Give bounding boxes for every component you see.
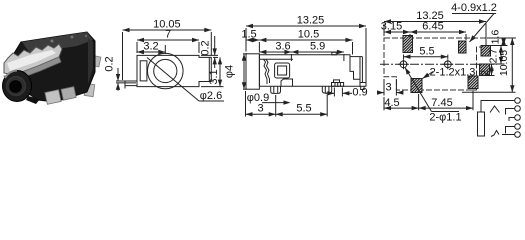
svg-text:5.5: 5.5 <box>419 46 434 58</box>
dim 1.5 view2 <box>246 39 259 41</box>
view1 left inner slot <box>140 61 147 81</box>
svg-text:0.2: 0.2 <box>200 40 212 55</box>
svg-text:3.15: 3.15 <box>381 21 402 33</box>
schematic mid pin wire <box>509 118 515 122</box>
dim 13.25 view3 <box>384 21 486 23</box>
svg-text:13.25: 13.25 <box>297 15 325 27</box>
svg-text:10.05: 10.05 <box>498 50 510 76</box>
view2 window outer <box>275 63 290 78</box>
view2 window inner <box>278 66 287 75</box>
svg-text:3: 3 <box>258 102 264 114</box>
view1 top small bump <box>198 55 200 57</box>
hole2 circle <box>444 61 451 68</box>
dim 10.5 view2 <box>259 39 352 41</box>
schematic tip contact spring <box>490 106 500 113</box>
photo: bottom feet <box>45 90 61 105</box>
dim 5.5 view2 <box>276 113 328 115</box>
view2 body outline <box>259 55 360 87</box>
svg-text:2-1.2x1.3: 2-1.2x1.3 <box>430 67 476 79</box>
view1 inner circle phi2.6 <box>154 59 177 82</box>
svg-text:1.5: 1.5 <box>241 29 256 41</box>
svg-text:3.2: 3.2 <box>143 41 158 53</box>
view1 left tab inner lines <box>124 81 126 89</box>
view2 leg1 <box>271 86 281 93</box>
photo: body top face <box>22 32 93 53</box>
view2 serrated step <box>334 80 340 83</box>
view1 right tab inner line <box>208 57 210 81</box>
view2 barrel rect <box>246 54 259 89</box>
photo: body under-barrel shadow <box>26 96 40 104</box>
dim 3 view3 <box>378 92 385 94</box>
pad2 hatched <box>459 41 467 53</box>
photo: metal bracket band <box>4 44 62 75</box>
dim phi4 view2 <box>243 54 245 89</box>
view1 diagonal leader through circle <box>147 58 199 102</box>
schematic sleeve wire <box>481 101 515 113</box>
dim 3.2 view1 <box>137 51 165 53</box>
svg-text:φ4: φ4 <box>224 65 236 78</box>
photo: barrel ring <box>7 77 26 96</box>
view1 phi2.6 label <box>199 100 224 102</box>
schematic plug rect <box>478 112 485 136</box>
svg-text:0.2: 0.2 <box>104 56 116 71</box>
view2 inner top line <box>259 58 293 60</box>
dim 3.15 view3 <box>384 31 410 33</box>
view2 top bump <box>332 52 337 55</box>
view2 right bracket <box>350 56 362 58</box>
pad6 hatched <box>468 76 478 89</box>
dim 7 view1 <box>137 39 199 41</box>
svg-text:φ2.6: φ2.6 <box>200 90 222 102</box>
dim 5.9 view2 <box>291 51 344 53</box>
pad4 hatched <box>480 64 490 76</box>
svg-text:3.6: 3.6 <box>275 41 290 53</box>
photo: right pin upper <box>90 55 101 67</box>
pad1 hatched <box>403 36 413 53</box>
svg-text:0.9: 0.9 <box>352 87 367 99</box>
dim 3.6 view2 <box>259 51 291 53</box>
svg-text:4-0.9x1.2: 4-0.9x1.2 <box>451 2 497 14</box>
dim 5.5 view3 <box>404 56 448 58</box>
svg-text:2-φ1.1: 2-φ1.1 <box>429 112 461 124</box>
photo: body top highlights <box>51 40 54 43</box>
svg-text:5.5: 5.5 <box>296 102 311 114</box>
schematic lower pin wire <box>506 127 515 134</box>
photo: jack hole <box>10 81 22 93</box>
svg-text:1.6: 1.6 <box>490 30 502 45</box>
svg-text:7.45: 7.45 <box>431 97 452 109</box>
dim 1.6 view3 <box>503 38 505 46</box>
svg-text:5.9: 5.9 <box>310 41 325 53</box>
dim 13.25 view2 <box>246 25 366 27</box>
dim 10.05 view3 <box>511 38 513 92</box>
dim 3 view2 <box>246 113 276 115</box>
view2 leg2 <box>322 86 331 93</box>
photo: barrel outer <box>3 71 32 102</box>
dim 3.1 right view1 <box>219 57 221 86</box>
pad3 hatched <box>481 46 491 57</box>
dim 2 view3 <box>491 64 493 76</box>
photo: bracket bright highlight <box>7 50 56 71</box>
view1 body outline <box>125 55 211 86</box>
svg-text:4.5: 4.5 <box>384 97 399 109</box>
label 2-phi1.1 <box>405 68 432 112</box>
photo: bracket lower lip <box>4 57 61 80</box>
view3 outline <box>384 38 486 90</box>
dim 2.7 view3 <box>500 46 502 65</box>
pad5 hatched <box>411 79 422 93</box>
view2 window step <box>281 79 293 86</box>
schematic tip contact wire <box>506 109 515 115</box>
photo: right pin lower <box>84 84 95 97</box>
dim 4.5 view3 <box>384 107 419 109</box>
dim 7.45 view3 <box>419 107 473 109</box>
svg-text:7: 7 <box>165 29 171 41</box>
hole1 circle <box>400 61 407 68</box>
view2 left hook detail <box>264 59 268 84</box>
svg-text:6.45: 6.45 <box>422 21 443 33</box>
view3 centerline h <box>380 63 497 65</box>
photo: barrel highlight arc <box>5 71 17 79</box>
schematic bottom contact wire <box>502 134 515 136</box>
photo: main black plastic body <box>13 32 95 102</box>
photo: body gloss right <box>88 38 93 84</box>
svg-text:3: 3 <box>385 82 391 94</box>
view1 outer circle (boss) <box>148 53 184 89</box>
svg-text:3.1: 3.1 <box>208 69 220 84</box>
schematic bottom contact spring <box>491 131 499 137</box>
svg-text:10.5: 10.5 <box>298 29 319 41</box>
dim 0.9 view2 <box>325 92 334 94</box>
schematic pin circles <box>515 98 521 104</box>
dim 10.05 view1 <box>123 29 212 31</box>
dim 6.45 view3 <box>410 31 466 33</box>
